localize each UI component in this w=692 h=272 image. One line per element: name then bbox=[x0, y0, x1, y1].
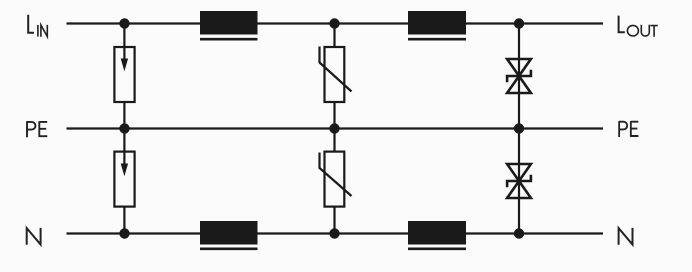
spark gap arrester F2 (PE-N) bbox=[114, 152, 134, 207]
inductor L3 (bottom left, filled core) bbox=[200, 221, 258, 249]
node PE / varistor column junction bbox=[329, 123, 339, 133]
node PE / diode column junction bbox=[514, 123, 524, 133]
label N (right) bbox=[619, 228, 633, 245]
wire left column F1 to PE bbox=[123, 101, 125, 129]
node N / diode column junction bbox=[514, 228, 524, 238]
node N / spark gap column junction bbox=[119, 228, 129, 238]
node L / varistor column junction bbox=[329, 18, 339, 28]
spark gap arrester F1 (L-PE) bbox=[114, 47, 134, 102]
node PE / spark gap column junction bbox=[119, 123, 129, 133]
label L_OUT bbox=[619, 16, 658, 37]
label PE (left) bbox=[27, 121, 47, 137]
wire left column PE to F2 bbox=[123, 129, 125, 154]
wire left column F2 to N bbox=[123, 206, 125, 234]
wire right column L to PE bbox=[518, 24, 520, 129]
wire PE horizontal bbox=[67, 127, 604, 129]
varistor RV2 (PE-N) bbox=[320, 152, 352, 207]
wire middle column PE to RV2 bbox=[333, 129, 335, 154]
suppressor diode D1 (bidirectional, L-PE) bbox=[507, 59, 531, 93]
label PE (right) bbox=[619, 121, 638, 137]
wire L_IN horizontal bbox=[67, 22, 604, 24]
node L / diode column junction bbox=[514, 18, 524, 28]
wire middle column L to RV1 bbox=[333, 24, 335, 49]
wire middle column RV1 to PE bbox=[333, 101, 335, 129]
suppressor diode D2 (bidirectional, PE-N) bbox=[507, 164, 531, 198]
node L / spark gap column junction bbox=[119, 18, 129, 28]
label N (left) bbox=[27, 228, 41, 245]
varistor RV1 (L-PE) bbox=[320, 47, 352, 103]
inductor L4 (bottom right, filled core) bbox=[408, 221, 466, 249]
node N / varistor column junction bbox=[329, 228, 339, 238]
wire N horizontal bbox=[67, 232, 604, 234]
wire right column PE to N bbox=[518, 129, 520, 234]
inductor L2 (top right, filled core) bbox=[408, 11, 466, 39]
wire middle column RV2 to N bbox=[333, 206, 335, 234]
inductor L1 (top left, filled core) bbox=[200, 11, 258, 39]
wire left column L to F1 bbox=[123, 24, 125, 49]
label L_IN bbox=[28, 15, 47, 37]
